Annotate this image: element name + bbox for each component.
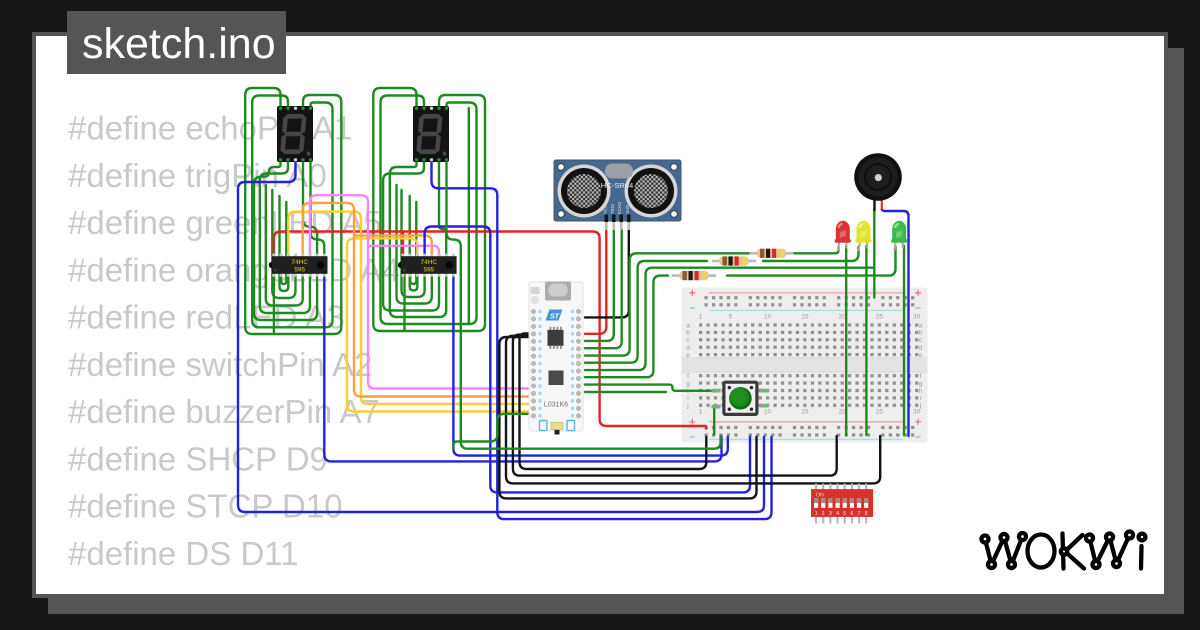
svg-text:595: 595: [423, 266, 434, 273]
svg-text:3: 3: [829, 511, 832, 517]
shift register U1 74HC595: [269, 254, 328, 277]
wire green button to rail: [713, 407, 715, 435]
wire blue speaker: [882, 210, 909, 437]
svg-text:g: g: [919, 380, 923, 387]
wire green buzzer: [585, 268, 873, 370]
svg-text:GND: GND: [625, 205, 630, 214]
wire chip2 U6: [410, 196, 418, 291]
sensor pin lead 4: [627, 221, 630, 230]
wire black GND 2: [513, 335, 837, 476]
svg-text:2: 2: [822, 511, 825, 517]
wire chip1 U5: [272, 190, 295, 298]
wire display1 U2: [254, 162, 317, 320]
svg-text:30: 30: [913, 314, 921, 321]
wire green green LED down: [903, 246, 905, 435]
wire green red LED down: [845, 246, 847, 435]
wire display1 p4 to chip1: [303, 162, 317, 258]
svg-text:#define greenLED A5: #define greenLED A5: [68, 204, 382, 241]
WOKWI logo: [982, 532, 1146, 569]
svg-text:595: 595: [294, 266, 305, 273]
svg-text:1: 1: [699, 314, 703, 321]
svg-text:74HC: 74HC: [292, 259, 309, 266]
sensor pin lead 1: [605, 221, 608, 230]
svg-text:#define SHCP D9: #define SHCP D9: [68, 440, 328, 477]
wire display2 U2: [390, 162, 446, 317]
wire black GND 1: [520, 333, 707, 469]
svg-text:15: 15: [801, 409, 809, 416]
wire yellow chip1 SHCP: [288, 212, 531, 404]
svg-text:f: f: [920, 373, 922, 380]
wire chip2 pin1 drop: [403, 274, 405, 330]
svg-text:#define redLED A3: #define redLED A3: [68, 299, 345, 336]
wire green to R3: [585, 276, 668, 378]
wire display2 loop A1: [373, 88, 485, 331]
wire display2 U3: [383, 162, 439, 311]
wire black sensor GND: [585, 230, 629, 318]
svg-text:L031K6: L031K6: [544, 402, 568, 409]
wire green button signal: [585, 385, 713, 391]
wire black GND 3: [506, 336, 880, 484]
wire green TRIG: [585, 230, 614, 341]
wire green R3 to green LED: [727, 247, 896, 276]
wire green button stub: [585, 391, 666, 393]
svg-text:a: a: [919, 322, 923, 329]
wire display2 right extra 1: [468, 108, 470, 324]
wire green display2 to rail: [447, 162, 721, 449]
svg-text:ON: ON: [816, 492, 824, 498]
svg-text:TRIG: TRIG: [610, 204, 615, 214]
svg-text:i: i: [920, 395, 921, 402]
7-segment display DISP1: [277, 106, 313, 162]
svg-text:g: g: [686, 380, 690, 387]
DIP switch SW2: [811, 484, 873, 524]
resistor R3: [672, 271, 716, 280]
wire green speaker down: [873, 209, 875, 298]
svg-text:sketch.ino: sketch.ino: [82, 20, 276, 68]
svg-text:#define buzzerPin A7: #define buzzerPin A7: [68, 393, 380, 430]
svg-text:h: h: [919, 388, 923, 395]
resistor R2: [712, 256, 756, 265]
speaker/buzzer BZ1: [854, 153, 902, 201]
wire chip1 U6: [280, 196, 289, 291]
speaker pin lead red: [881, 199, 883, 210]
wire blue display2: [432, 162, 772, 519]
wire blue chip2 out: [453, 274, 727, 456]
wire blue chip2 DS: [425, 227, 750, 493]
wire red chip2 stub: [402, 232, 404, 259]
wire chip1 U4: [266, 185, 303, 306]
svg-text:b: b: [919, 330, 923, 337]
svg-text:7: 7: [858, 511, 861, 517]
wire red sensor VCC: [585, 230, 606, 334]
wire display1 loop A1: [245, 88, 341, 334]
wire orange chip2 STCP: [354, 236, 432, 258]
svg-text:1: 1: [699, 409, 703, 416]
svg-text:6: 6: [851, 511, 854, 517]
wire green R2 to yellow LED: [763, 247, 859, 261]
shift register U2 74HC595: [398, 254, 457, 277]
svg-text:f: f: [687, 373, 689, 380]
svg-text:10: 10: [764, 409, 772, 416]
wire green R1 to red LED: [793, 247, 839, 253]
svg-text:25: 25: [876, 409, 884, 416]
LED red LED: [835, 221, 851, 251]
wire red 5V chip1 to rail: [274, 232, 706, 429]
svg-text:#define DS D11: #define DS D11: [68, 535, 299, 572]
svg-text:5: 5: [843, 511, 846, 517]
wire blue chip1: [324, 274, 721, 461]
sketch.ino tab: [67, 11, 286, 74]
LED yellow LED: [855, 221, 871, 251]
svg-text:1: 1: [815, 511, 818, 517]
svg-text:8: 8: [865, 511, 868, 517]
svg-text:74HC: 74HC: [421, 259, 438, 266]
svg-text:d: d: [919, 345, 923, 352]
svg-text:d: d: [686, 345, 690, 352]
LED green LED: [891, 221, 907, 251]
sensor pin lead 2: [612, 221, 615, 230]
wire display1 loop A2: [252, 96, 332, 328]
wire display2 loop A2: [381, 96, 477, 325]
svg-text:j: j: [686, 403, 688, 410]
wire display1 p5 to chip1: [311, 162, 325, 258]
svg-text:HC-SR04: HC-SR04: [601, 181, 634, 190]
wire chip2 U5: [402, 190, 425, 297]
wire black GND 4: [499, 337, 756, 498]
wire chip1 U7: [281, 202, 286, 284]
svg-text:b: b: [686, 330, 690, 337]
wire green ECHO: [585, 230, 622, 349]
svg-text:j: j: [919, 403, 921, 410]
wire green yellow LED down: [865, 246, 867, 435]
svg-text:#define orangeLED A4: #define orangeLED A4: [68, 251, 400, 288]
wire pink chip1 DS: [310, 195, 531, 388]
wire display2 p4 to chip2: [439, 162, 446, 258]
7-segment display DISP2: [413, 106, 449, 162]
svg-text:ECHO: ECHO: [617, 201, 622, 214]
sensor pin lead 3: [620, 221, 623, 230]
pushbutton SW: [712, 382, 769, 414]
ultrasonic sensor HC-SR04: [554, 160, 681, 222]
speaker pin lead black: [873, 199, 875, 211]
wire display1 U3: [260, 162, 310, 313]
svg-text:4: 4: [836, 511, 839, 517]
svg-text:VCC: VCC: [602, 205, 607, 214]
svg-text:15: 15: [801, 314, 809, 321]
wire blue display1 long: [238, 162, 764, 512]
wire chip2 U4: [397, 185, 432, 304]
wire pink chip2: [368, 246, 439, 258]
svg-text:10: 10: [764, 314, 772, 321]
svg-text:ST: ST: [550, 313, 560, 320]
wire yellow chip2 SHCP: [347, 238, 531, 411]
wire green A2: [454, 414, 532, 449]
resistor R1: [750, 249, 794, 258]
MCU board Nucleo L031K6: [529, 282, 583, 435]
svg-text:e: e: [919, 352, 923, 359]
breadboard: [682, 288, 928, 443]
svg-text:25: 25: [876, 314, 884, 321]
wire green to R1: [585, 253, 750, 355]
wire green to R2: [585, 261, 707, 363]
svg-text:e: e: [686, 352, 690, 359]
svg-text:a: a: [686, 322, 690, 329]
svg-text:5: 5: [729, 314, 733, 321]
svg-text:#define switchPin A2: #define switchPin A2: [68, 346, 373, 383]
svg-text:i: i: [687, 395, 688, 402]
wire chip1 pin1 drop: [273, 274, 275, 332]
wire chip2 U7: [410, 202, 416, 284]
wire orange chip1 STCP: [303, 203, 531, 397]
svg-text:#define STCP D10: #define STCP D10: [68, 488, 343, 525]
